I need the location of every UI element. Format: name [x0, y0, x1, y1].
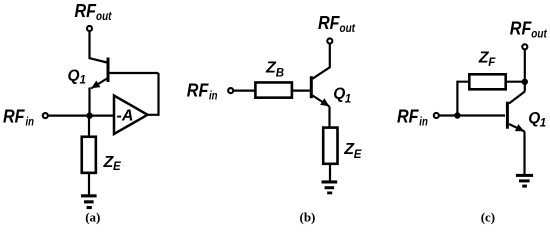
svg-text:RF: RF	[510, 19, 532, 39]
svg-text:E: E	[354, 149, 362, 161]
svg-text:B: B	[276, 67, 284, 79]
svg-text:RF: RF	[187, 81, 209, 101]
svg-text:Q: Q	[333, 86, 345, 103]
svg-text:F: F	[488, 57, 496, 69]
svg-text:1: 1	[80, 74, 86, 86]
svg-text:(a): (a)	[85, 209, 100, 224]
svg-text:Q: Q	[528, 110, 540, 127]
svg-text:in: in	[26, 114, 35, 128]
svg-text:out: out	[96, 9, 112, 23]
svg-text:-A: -A	[117, 108, 134, 125]
svg-text:out: out	[340, 21, 356, 35]
svg-text:E: E	[113, 161, 121, 173]
svg-text:out: out	[531, 26, 547, 40]
svg-text:(b): (b)	[300, 209, 316, 224]
svg-text:RF: RF	[3, 107, 25, 127]
svg-text:RF: RF	[75, 1, 97, 21]
svg-text:in: in	[419, 114, 428, 128]
svg-text:in: in	[209, 88, 218, 102]
svg-text:RF: RF	[397, 107, 419, 127]
svg-text:Q: Q	[68, 67, 80, 84]
svg-text:(c): (c)	[481, 209, 495, 224]
svg-text:RF: RF	[318, 13, 340, 33]
svg-text:1: 1	[345, 93, 351, 105]
svg-text:1: 1	[540, 117, 546, 129]
